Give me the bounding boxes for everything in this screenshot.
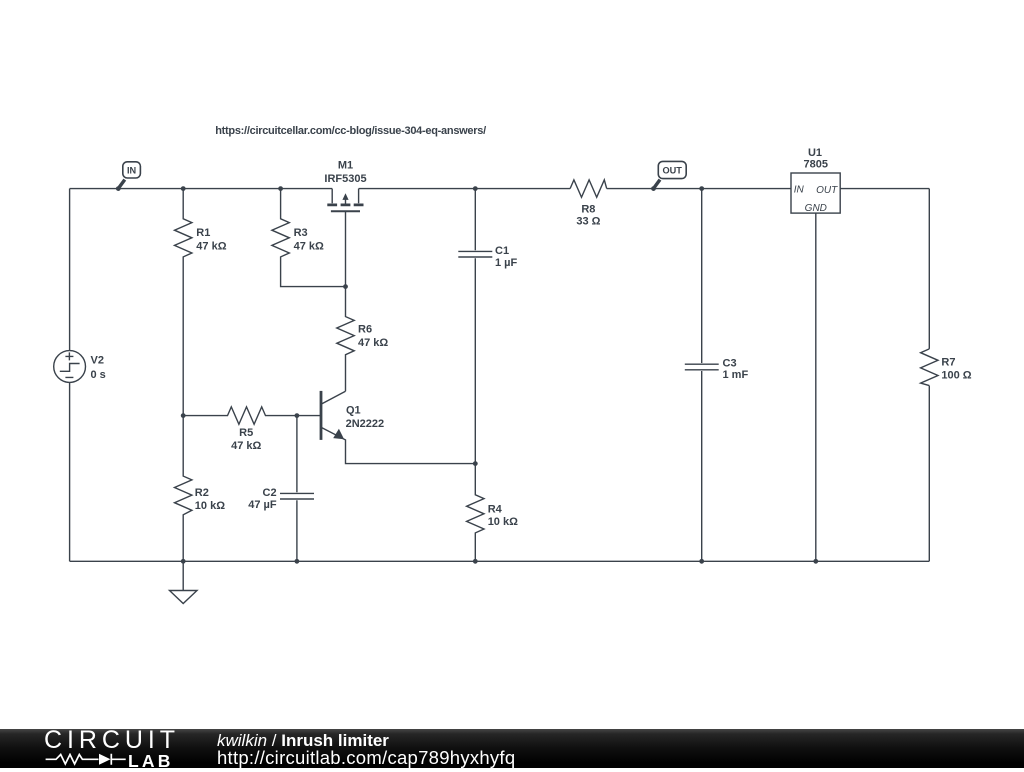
capacitor C3 [685,189,719,562]
svg-text:R8: R8 [581,203,595,215]
svg-text:1 µF: 1 µF [495,257,518,269]
CircuitLab logo text CIRCUIT [44,726,180,755]
svg-text:OUT: OUT [662,165,682,175]
svg-text:IRF5305: IRF5305 [324,173,366,185]
svg-text:IN: IN [127,165,137,175]
svg-text:1 mF: 1 mF [723,369,749,381]
svg-text:47 µF: 47 µF [248,499,277,511]
svg-text:47 kΩ: 47 kΩ [231,440,261,452]
Q1 emitter arrow [333,429,344,440]
U1 GND lead [815,213,817,561]
svg-text:47 kΩ: 47 kΩ [294,240,324,252]
svg-text:R3: R3 [294,227,308,239]
resistor R2 [175,416,192,562]
svg-text:R5: R5 [239,427,253,439]
svg-text:0 s: 0 s [91,369,106,381]
mosfet M1 [332,189,358,204]
svg-text:https://circuitcellar.com/cc-b: https://circuitcellar.com/cc-blog/issue-… [215,125,486,137]
svg-text:OUT: OUT [816,185,838,196]
wire left rail [69,189,71,562]
ground symbol [170,561,198,603]
capacitor C1 [458,189,492,464]
OUT flag [658,161,686,178]
svg-text:100 Ω: 100 Ω [941,369,971,381]
capacitor C2 [280,416,314,562]
svg-text:47 kΩ: 47 kΩ [358,337,388,349]
svg-text:R4: R4 [488,503,503,515]
resistor R6 [337,287,354,392]
resistor R7 [921,349,938,386]
svg-text:GND: GND [805,203,827,214]
wire top segment B (drain side, with R8 gap) [359,188,791,190]
svg-text:C2: C2 [263,487,277,499]
svg-text:R7: R7 [941,356,955,368]
svg-text:C1: C1 [495,245,509,257]
footer url [217,747,515,769]
resistor R5 [183,407,297,424]
svg-text:47 kΩ: 47 kΩ [196,240,226,252]
logo resistor+diode symbol [44,753,128,767]
U1 pin labels [794,185,838,214]
wire top segment A (source side) [70,188,333,190]
mosfet body arrow [342,193,348,200]
svg-text:R2: R2 [195,487,209,499]
svg-text:10 kΩ: 10 kΩ [195,500,225,512]
footer bar [0,729,1024,768]
svg-text:Q1: Q1 [346,404,361,416]
wire right rail [928,189,930,562]
footer title [217,731,389,751]
svg-text:2N2222: 2N2222 [346,418,385,430]
svg-text:R6: R6 [358,324,372,336]
svg-text:U1: U1 [808,147,822,159]
resistor R4 [467,464,484,562]
svg-text:C3: C3 [723,357,737,369]
transistor Q1 [320,391,323,440]
wire bottom rail [70,560,930,562]
IN flag [123,162,141,178]
CircuitLab logo LAB [128,751,174,772]
resistor R8 [570,180,607,197]
svg-text:R1: R1 [196,227,210,239]
svg-text:7805: 7805 [804,159,828,171]
svg-text:IN: IN [794,185,805,196]
resistor R3 [272,189,346,287]
wire U1 OUT to right rail [840,188,929,190]
svg-text:33 Ω: 33 Ω [576,216,600,228]
U1 box [791,173,840,213]
svg-text:V2: V2 [91,355,104,367]
resistor R1 [175,189,192,416]
junction dots [116,186,121,191]
svg-text:M1: M1 [338,159,353,171]
svg-text:10 kΩ: 10 kΩ [488,516,518,528]
voltage source V2 [54,351,86,383]
